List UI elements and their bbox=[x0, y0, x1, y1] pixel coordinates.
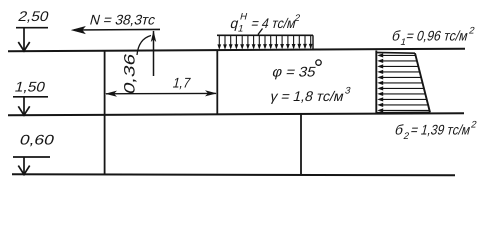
svg-text:N = 38,3тс: N = 38,3тс bbox=[88, 13, 157, 29]
svg-text:γ = 1,8 тс/м: γ = 1,8 тс/м bbox=[269, 89, 346, 105]
svg-text:2,50: 2,50 bbox=[17, 9, 51, 25]
svg-text:0,60: 0,60 bbox=[18, 133, 56, 149]
svg-text:1,50: 1,50 bbox=[13, 80, 47, 96]
svg-text:0,36: 0,36 bbox=[122, 52, 139, 96]
svg-text:= 1,39 тс/м: = 1,39 тс/м bbox=[409, 123, 472, 139]
svg-text:= 0,96 тс/м: = 0,96 тс/м bbox=[405, 29, 470, 45]
svg-text:= 4 тс/м: = 4 тс/м bbox=[250, 16, 298, 32]
svg-text:φ = 35: φ = 35 bbox=[271, 65, 318, 81]
